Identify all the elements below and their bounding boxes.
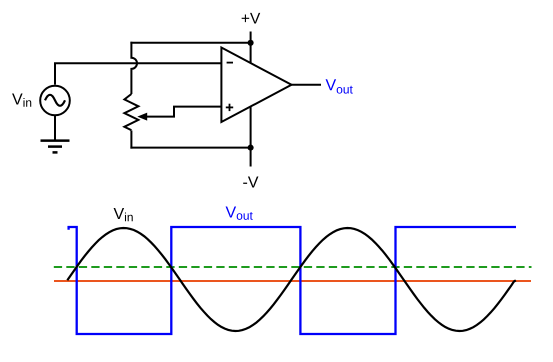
- node junction dot on -V rail: [248, 145, 254, 151]
- potentiometer R1 zigzag: [124, 94, 138, 130]
- threshold reference green dashed line: [54, 266, 532, 268]
- wire -V supply: [250, 107, 252, 167]
- node junction dot on +V rail: [248, 40, 254, 46]
- wire output: [292, 84, 322, 86]
- wire bottom rail: [130, 147, 250, 149]
- source sine glyph: [45, 95, 65, 106]
- -V power label: [243, 176, 258, 187]
- zero reference orange line: [54, 280, 531, 282]
- Vin sine wave black: [67, 228, 516, 331]
- source VS sine symbol circle: [40, 86, 70, 116]
- label Vin waveform: [114, 208, 133, 221]
- ground symbol: [41, 141, 70, 153]
- Vout square wave blue: [69, 227, 516, 334]
- label Vin source: [12, 93, 31, 106]
- wire Vin to inverting input: [55, 63, 221, 84]
- label Vout at opamp output: [326, 79, 353, 93]
- op-amp plus input mark: [226, 106, 233, 108]
- wire +V supply: [250, 32, 252, 64]
- label Vout waveform: [226, 206, 253, 219]
- wire source to ground: [54, 115, 56, 140]
- op-amp U1 triangle: [221, 48, 291, 123]
- op-amp minus input mark: [227, 62, 233, 64]
- wire potentiometer to bottom rail: [130, 131, 132, 149]
- wiper arrow of potentiometer: [146, 107, 222, 117]
- +V power label: [242, 13, 261, 24]
- wire top rail to potentiometer: [130, 42, 250, 44]
- wire left vertical with hop over Vin wire: [131, 42, 137, 94]
